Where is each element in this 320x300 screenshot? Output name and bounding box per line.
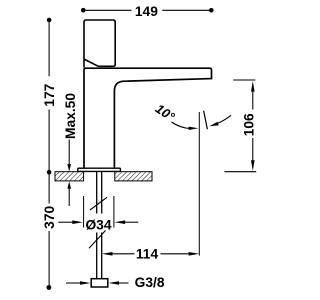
10deg right leader arrow — [217, 115, 231, 123]
extension line outlet vertical — [198, 112, 200, 256]
10deg left leader arrow — [172, 122, 190, 128]
svg-text:114: 114 — [136, 247, 159, 262]
dim dots — [47, 18, 52, 23]
handle lever — [84, 20, 115, 68]
Max.50 lower arrow — [67, 181, 71, 189]
svg-text:370: 370 — [42, 205, 57, 228]
counter left hatched block — [55, 172, 84, 181]
O34 left arrow — [58, 221, 73, 223]
faucet body and spout — [84, 68, 212, 168]
pipe break mark upper — [90, 197, 107, 210]
dimension 177/370 vertical line — [48, 20, 50, 286]
dimension O34 extension lines — [84, 196, 114, 228]
pipe break mark lower — [89, 231, 106, 249]
svg-text:177: 177 — [42, 83, 57, 106]
G3/8 fitting — [91, 279, 108, 287]
base plate — [78, 168, 121, 171]
svg-text:Ø34: Ø34 — [85, 217, 111, 232]
Max.50 upper arrow — [68, 140, 70, 166]
dim 149 end dots — [81, 8, 86, 13]
svg-text:Max.50: Max.50 — [63, 93, 78, 139]
O34 right arrow — [115, 220, 126, 224]
supply pipe — [97, 171, 102, 278]
counter right hatched block — [115, 172, 152, 181]
svg-text:106: 106 — [241, 113, 256, 136]
svg-text:149: 149 — [135, 4, 158, 19]
10 degree tilted line — [204, 111, 208, 129]
G3/8 right arrow — [108, 281, 119, 285]
dimension 114 — [102, 252, 113, 256]
dimension 106 — [233, 79, 255, 81]
svg-text:G3/8: G3/8 — [135, 275, 165, 290]
G3/8 left arrow — [66, 282, 81, 284]
dimension 149 top — [85, 9, 210, 11]
